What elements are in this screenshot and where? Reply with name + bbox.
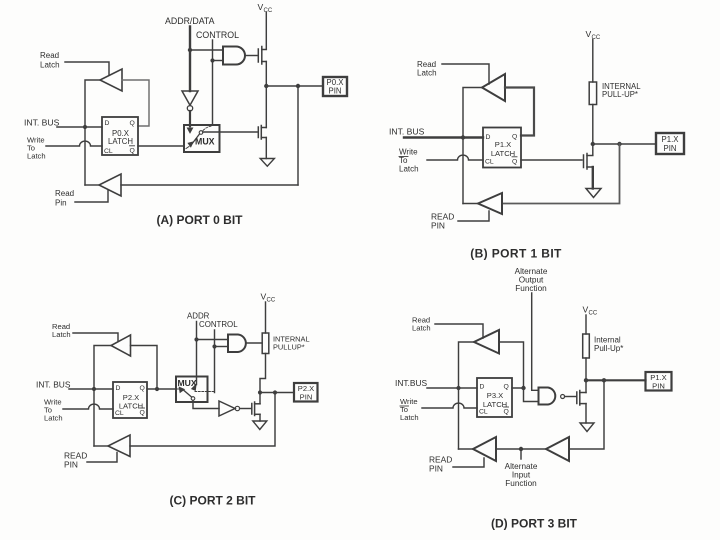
node pin junction (A) — [296, 84, 300, 88]
mux internal switch contact circle (C) — [191, 397, 195, 401]
wire stub to alternate input label (D) — [520, 449, 522, 459]
node junction int.bus (A) — [83, 125, 87, 129]
svg-text:CONTROL: CONTROL — [199, 320, 238, 329]
op-amp buffer read-latch U1A — [100, 69, 122, 91]
svg-text:PIN: PIN — [431, 221, 445, 231]
wire INT.BUS (A) — [57, 126, 102, 128]
svg-text:Latch: Latch — [44, 414, 63, 423]
wire read-pin buffer output (C) — [94, 445, 108, 447]
wire write-to-latch with hop (B) — [427, 155, 483, 160]
pin box P2.X PIN (C) — [294, 383, 318, 402]
label INTERNAL PULLUP* (C) — [273, 335, 310, 352]
svg-text:INT. BUS: INT. BUS — [24, 118, 60, 128]
svg-text:P3.X: P3.X — [487, 391, 503, 400]
wire resistor to pin node (D) — [585, 358, 587, 393]
svg-text:D: D — [116, 385, 121, 392]
wire read-latch label to buffer (D) — [435, 324, 483, 338]
overbar on Qbar (B) — [512, 156, 517, 158]
node junction int.bus (C) — [92, 387, 96, 391]
label READ PIN (D) — [429, 455, 452, 474]
wire read-latch buffer output to vertical (C) — [94, 346, 111, 447]
ground (D) — [580, 423, 594, 432]
and-gate G1C — [228, 335, 246, 353]
wire ADDR vertical (C) — [196, 322, 198, 385]
latch U2 P0.X LATCH box — [102, 117, 138, 155]
wire NAND output to FET gate (D) — [565, 396, 576, 398]
mux internal select arrow from inverter (A) — [187, 126, 192, 133]
value label P1.X LATCH (B) — [491, 140, 515, 158]
svg-text:PIN: PIN — [652, 382, 665, 391]
wire to P2.X PIN box (C) — [260, 392, 294, 394]
mux internal input arrow (C) — [176, 387, 184, 392]
svg-text:P1.X: P1.X — [495, 140, 511, 149]
svg-text:Q: Q — [140, 385, 145, 392]
mux internal input arrow from latch (A) — [186, 142, 193, 149]
wire to P1.X PIN box (B) — [593, 143, 656, 145]
value label P3.X LATCH (D) — [483, 391, 507, 409]
svg-text:Pull-Up*: Pull-Up* — [594, 344, 623, 353]
svg-text:CONTROL: CONTROL — [196, 30, 239, 40]
wire write-to-latch with hop (C) — [63, 404, 113, 409]
svg-text:CL: CL — [115, 410, 124, 417]
label VCC (A) — [258, 2, 273, 14]
wire read-pin buffer input line (A) — [121, 184, 298, 186]
wire lower FET source to ground (A) — [265, 138, 267, 159]
wire read-pin buffer output (B) — [463, 203, 478, 205]
op-amp buffer alternate-input U6D — [546, 437, 569, 461]
wire latch Q to MUX (C) — [147, 388, 176, 390]
wire ADDR/DATA vertical (A) — [189, 27, 191, 92]
pin box P1.X PIN (B) — [656, 133, 684, 154]
transistor Q1 upper FET (A) — [258, 47, 266, 65]
overbar on To (D) — [400, 405, 409, 407]
label Alternate Input Function (D) — [505, 462, 538, 488]
label VCC (B) — [586, 29, 601, 41]
wire read-latch label to buffer (A) — [65, 62, 109, 75]
wire inverter to FET gate (C) — [240, 408, 251, 410]
node drain junction (C) — [258, 390, 262, 394]
wire read-pin label to buffer (A) — [75, 191, 108, 203]
mux U4C box — [176, 377, 208, 403]
mux internal switch diagonal (C) — [184, 391, 192, 398]
svg-text:(B) PORT 1 BIT: (B) PORT 1 BIT — [470, 247, 562, 261]
svg-text:CC: CC — [267, 298, 276, 304]
node pullup/drain junction (D) — [584, 378, 588, 382]
label Write To Latch (A) — [27, 136, 46, 161]
svg-text:ADDR/DATA: ADDR/DATA — [165, 16, 215, 26]
wire latch Q to read-latch buffer input (B) — [505, 88, 534, 136]
wire buffer input from Q node (C) — [131, 346, 158, 390]
mux U4 box (A) — [184, 125, 220, 152]
svg-text:PULLUP*: PULLUP* — [273, 343, 305, 352]
svg-text:Pin: Pin — [55, 199, 67, 208]
node junction int.bus (D) — [456, 386, 460, 390]
svg-text:PIN: PIN — [300, 393, 313, 402]
wire pin node down to read-pin input (B) — [502, 144, 620, 204]
svg-text:MUX: MUX — [195, 137, 215, 147]
overbar on Qbar (C) — [140, 407, 145, 409]
wire alternate output to NAND top input (D) — [532, 293, 539, 390]
overbar on To (B) — [399, 156, 408, 158]
svg-text:D: D — [105, 120, 110, 127]
op-amp buffer read-pin U5A — [99, 174, 121, 196]
wire upper FET source down to pin node (A) — [265, 62, 267, 87]
svg-text:Latch: Latch — [40, 61, 60, 70]
svg-text:PIN: PIN — [329, 87, 342, 96]
wire read-pin label to buffer (B) — [458, 211, 489, 221]
mux internal switch diagonal (A) — [192, 134, 200, 145]
node alternate input junction (D) — [519, 447, 523, 451]
label ADDR CONTROL (C) — [187, 312, 238, 330]
wire pin node down to alternate input buffer (D) — [569, 380, 604, 449]
wire addr/data to AND gate top input (A) — [190, 49, 223, 51]
node pin junction (C) — [273, 390, 277, 394]
svg-text:INT. BUS: INT. BUS — [36, 380, 71, 390]
label Read Pin (A) — [55, 189, 74, 208]
label READ PIN (B) — [431, 212, 454, 231]
wire MUX output to lower FET gate (A) — [203, 131, 257, 133]
wire INT.BUS (D) — [427, 387, 477, 389]
svg-text:Read: Read — [55, 189, 74, 198]
overbar on Qbar (A) — [130, 145, 135, 147]
resistor R1D internal pull-up — [583, 334, 590, 358]
wire MUX output to inverter (C) — [193, 400, 219, 408]
transistor Q1D output FET — [577, 391, 586, 406]
node junction Q wire (C) — [155, 387, 159, 391]
node addr to AND (C) — [194, 337, 198, 341]
label Write To Latch (C) — [44, 398, 63, 423]
wire CONTROL vertical (C) — [214, 330, 216, 393]
wire CONTROL vertical (A) — [212, 40, 214, 125]
ground (A) — [260, 159, 274, 167]
wire read-latch buffer output to vertical (D) — [459, 342, 475, 449]
wire read-latch buffer output to int.bus vertical (A) — [85, 80, 100, 185]
label Internal Pull-Up* (D) — [594, 336, 623, 354]
node control to AND (A) — [210, 58, 214, 62]
wire read-pin label to buffer (D) — [453, 458, 484, 467]
op-amp buffer read-pin U5D — [473, 437, 496, 461]
value label P2.X LATCH (C) — [119, 393, 143, 411]
pin labels D Q CL Qbar (C) — [115, 385, 145, 417]
node pin junction (B) — [617, 142, 621, 146]
svg-text:CC: CC — [589, 311, 598, 317]
label READ PIN (C) — [64, 451, 87, 470]
wire lower FET drain up to pin node (A) — [265, 86, 267, 128]
pin box P1.X PIN (D) — [646, 372, 672, 391]
label Write To Latch (B) — [399, 148, 419, 174]
resistor R1C internal pullup — [262, 333, 269, 354]
wire pin node down to read-pin line (A) — [297, 86, 299, 185]
wire FET source to ground (D) — [585, 404, 587, 423]
svg-text:(D) PORT 3 BIT: (D) PORT 3 BIT — [491, 517, 578, 531]
wire read-latch label to buffer (C) — [73, 333, 118, 342]
wire FET drain up to pin node (C) — [259, 393, 261, 404]
wire write-to-latch with hop (D) — [422, 403, 477, 408]
wire addr to AND top input (C) — [197, 339, 229, 341]
wire read-pin buffer output (A) — [85, 184, 99, 186]
inverter U3 (A) — [182, 91, 198, 105]
op-amp buffer read-latch U1C — [111, 335, 131, 356]
svg-text:CL: CL — [485, 159, 494, 166]
wire to P1.X PIN box (D) — [586, 379, 646, 381]
wire VCC to pullup resistor (D) — [585, 315, 587, 334]
latch U2D P3.X LATCH box — [477, 378, 512, 417]
value label P0.X LATCH — [108, 129, 133, 146]
overbar on Qbar (D) — [504, 406, 509, 408]
wire read-latch buffer output to vertical (B) — [463, 88, 482, 204]
svg-text:CC: CC — [264, 8, 273, 14]
pin labels D Q CL Qbar (D) — [479, 384, 509, 416]
mux internal dashed link to control (C) — [195, 391, 215, 393]
node addr/data to AND (A) — [188, 48, 192, 52]
svg-text:P1.X: P1.X — [662, 135, 680, 144]
resistor R1 internal pull-up (B) — [589, 82, 596, 105]
wire read-latch label to buffer (B) — [442, 64, 489, 84]
wire to P0.X PIN box (A) — [266, 85, 323, 87]
label Write To Latch (D) — [400, 397, 419, 422]
label Alternate Output Function (D) — [515, 267, 548, 293]
svg-text:(A) PORT 0 BIT: (A) PORT 0 BIT — [157, 213, 244, 227]
node control to AND (C) — [212, 344, 216, 348]
latch U2C P2.X LATCH box — [113, 382, 147, 418]
node junction Q wire (D) — [521, 386, 525, 390]
wire latch Qbar to MUX (A) — [138, 145, 184, 147]
wire read-pin buffer output (D) — [459, 448, 474, 450]
wire AND output to pullup (C) — [247, 342, 262, 344]
mux internal switch contact circle (A) — [199, 131, 203, 135]
wire inverter to MUX (A) — [189, 111, 191, 126]
op-amp buffer read-pin U5B — [478, 193, 502, 214]
label Read Latch (B) — [417, 60, 437, 78]
wire VCC to pullup resistor (C) — [265, 302, 267, 333]
wire latch Qbar to FET gate (B) — [521, 159, 582, 161]
wire pin node down to read-pin input (C) — [130, 393, 275, 447]
op-amp buffer read-latch U1D — [474, 330, 499, 354]
wire read-pin label to buffer (C) — [87, 453, 117, 463]
wire latch Q to read-latch buffer input (A) — [122, 80, 149, 126]
svg-text:(C) PORT 2 BIT: (C) PORT 2 BIT — [170, 494, 257, 508]
svg-text:LATCH: LATCH — [483, 400, 507, 409]
wire VCC to pullup resistor (B) — [592, 40, 594, 83]
svg-text:D: D — [480, 384, 485, 391]
op-amp buffer read-pin U5C — [108, 435, 130, 457]
label Read Latch (C) — [52, 322, 71, 339]
ground (C) — [253, 421, 267, 430]
svg-text:Q: Q — [140, 410, 145, 417]
svg-text:D: D — [486, 134, 491, 141]
wire FET source to ground (B) — [592, 167, 594, 189]
svg-text:Latch: Latch — [400, 413, 419, 422]
node pin junction (D) — [602, 378, 606, 382]
op-amp buffer read-latch U1B — [482, 74, 505, 101]
label Read Latch (A) — [40, 51, 60, 70]
transistor Q1B output FET — [584, 154, 593, 170]
svg-text:MUX: MUX — [178, 378, 197, 388]
mux internal dashed link to control (A) — [203, 126, 212, 131]
wire write-to-latch with hop over vertical (A) — [46, 141, 102, 146]
svg-text:Q: Q — [504, 384, 509, 391]
svg-text:Q: Q — [130, 120, 135, 127]
latch U2B P1.X LATCH box — [483, 128, 521, 168]
label VCC (D) — [583, 305, 598, 317]
svg-text:Latch: Latch — [52, 330, 71, 339]
inverter bubble (A) — [187, 106, 192, 111]
svg-text:LATCH: LATCH — [108, 137, 133, 146]
svg-text:CL: CL — [104, 148, 113, 155]
svg-text:Q: Q — [504, 409, 509, 416]
inverter bubble (C) — [235, 406, 239, 410]
label VCC (C) — [261, 292, 276, 304]
svg-text:Q: Q — [512, 159, 517, 166]
pin labels D Q CL Qbar (B) — [485, 134, 517, 166]
svg-text:Function: Function — [515, 284, 547, 293]
svg-text:Q: Q — [512, 134, 517, 141]
wire latch Q to node and down to NAND bottom input (D) — [512, 388, 539, 402]
svg-text:Q: Q — [130, 148, 135, 155]
svg-text:Function: Function — [505, 479, 537, 488]
wire alt buffer output to read-pin buffer input (D) — [496, 448, 546, 450]
transistor Q2 lower FET (A) — [258, 126, 266, 140]
node pullup/drain junction (B) — [591, 142, 595, 146]
svg-text:INT. BUS: INT. BUS — [389, 127, 425, 137]
wire pullup down with jog to pin node (C) — [260, 354, 266, 393]
wire VCC to upper transistor drain (A) — [265, 13, 267, 50]
node FET junction (A) — [264, 84, 268, 88]
nand-gate G1D — [539, 388, 556, 405]
wire buffer input from Q node (D) — [499, 342, 524, 388]
and-gate G1 (A) — [223, 47, 245, 65]
svg-text:Latch: Latch — [412, 324, 431, 333]
wire control to AND bottom input (C) — [215, 346, 229, 348]
label Read Latch (D) — [412, 316, 431, 333]
pin labels D Q CL Qbar (A) — [104, 120, 135, 155]
pin box P0.X PIN — [323, 77, 347, 96]
wire INT.BUS (C) — [69, 388, 113, 390]
inverter U3C — [219, 401, 235, 416]
svg-text:Latch: Latch — [417, 69, 437, 78]
wire FET source to ground (C) — [259, 414, 261, 421]
svg-text:PIN: PIN — [64, 460, 78, 470]
svg-text:PULL-UP*: PULL-UP* — [602, 90, 638, 99]
node junction int.bus (B) — [461, 135, 465, 139]
svg-text:INT.BUS: INT.BUS — [395, 378, 428, 388]
label INTERNAL PULL-UP* (B) — [602, 82, 641, 99]
svg-text:LATCH: LATCH — [119, 402, 143, 411]
wire AND output to upper transistor gate (A) — [245, 55, 257, 57]
svg-text:Latch: Latch — [399, 165, 419, 174]
wire resistor to pin node (B) — [592, 105, 594, 156]
wire control to AND gate bottom input (A) — [213, 60, 224, 62]
svg-text:Read: Read — [40, 51, 59, 60]
wire INT.BUS (B) — [404, 136, 483, 138]
svg-text:PIN: PIN — [664, 144, 677, 153]
svg-text:Latch: Latch — [27, 152, 46, 161]
svg-text:CL: CL — [479, 409, 488, 416]
nand output bubble (D) — [561, 395, 565, 399]
svg-text:PIN: PIN — [429, 464, 443, 474]
svg-text:LATCH: LATCH — [491, 149, 515, 158]
transistor Q2C output FET — [252, 402, 260, 416]
ground (B) — [586, 189, 601, 198]
